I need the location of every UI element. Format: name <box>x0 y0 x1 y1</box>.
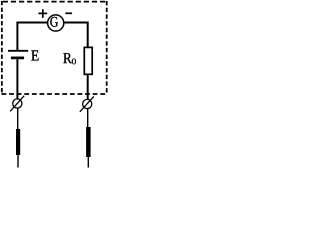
galvanometer U1 (G) <box>48 15 64 31</box>
dashed panel line (bottom of enclosure) <box>2 93 108 95</box>
wire: right terminal to electrode <box>87 109 89 129</box>
wire: left terminal to electrode <box>17 108 19 130</box>
electrode lead (left) <box>17 155 19 168</box>
wire: resistor to right terminal <box>87 74 89 100</box>
polarity mark - (galvanometer negative terminal) <box>65 12 72 14</box>
terminal post (left, circle with slash) <box>10 96 24 112</box>
wire: battery to left terminal <box>16 59 18 99</box>
dashed enclosure box (apparatus boundary) <box>2 1 108 95</box>
wire: top right horizontal (galvanometer to resistor) <box>64 23 87 48</box>
resistor R0 <box>63 47 92 74</box>
electrode plate (left) <box>16 129 20 155</box>
terminal post (right, circle with slash) <box>80 96 94 111</box>
battery E <box>8 50 39 60</box>
polarity mark + (galvanometer positive terminal) <box>38 9 47 18</box>
electrode lead (right) <box>87 157 89 168</box>
electrode plate (right) <box>86 127 91 157</box>
wire: top left horizontal (battery top to galvanometer) <box>17 23 47 51</box>
